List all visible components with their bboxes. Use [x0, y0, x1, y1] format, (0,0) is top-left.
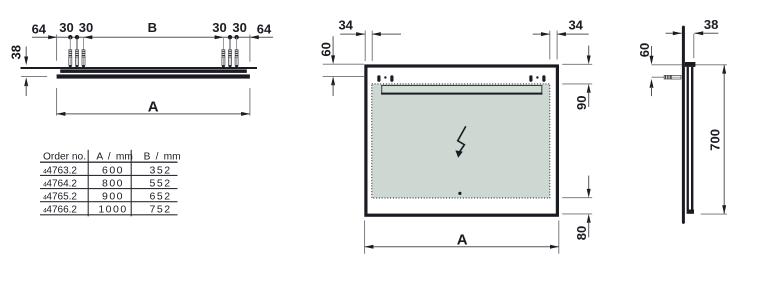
- svg-text:60: 60: [637, 43, 652, 57]
- svg-text:Order no.: Order no.: [43, 151, 86, 162]
- svg-text:80: 80: [574, 226, 589, 240]
- svg-text:30: 30: [59, 20, 73, 35]
- svg-text:34: 34: [568, 17, 583, 32]
- svg-text:700: 700: [708, 129, 723, 151]
- svg-text:900: 900: [102, 191, 124, 203]
- svg-text:30: 30: [212, 20, 226, 35]
- svg-text:B / mm: B / mm: [144, 151, 181, 162]
- svg-text:A: A: [148, 99, 159, 116]
- svg-text:352: 352: [150, 164, 172, 176]
- svg-text:4763.2: 4763.2: [46, 165, 77, 176]
- svg-text:64: 64: [257, 21, 272, 36]
- svg-text:552: 552: [150, 178, 172, 190]
- svg-text:652: 652: [150, 191, 172, 203]
- svg-text:38: 38: [704, 17, 718, 32]
- svg-text:600: 600: [102, 164, 124, 176]
- svg-text:752: 752: [150, 204, 172, 216]
- svg-text:30: 30: [79, 20, 93, 35]
- svg-text:A / mm: A / mm: [96, 151, 133, 162]
- svg-text:4766.2: 4766.2: [46, 205, 77, 216]
- svg-text:4765.2: 4765.2: [46, 192, 77, 203]
- svg-text:1000: 1000: [98, 204, 127, 216]
- svg-text:30: 30: [232, 20, 246, 35]
- svg-text:4764.2: 4764.2: [46, 179, 77, 190]
- svg-text:800: 800: [102, 178, 124, 190]
- svg-text:60: 60: [318, 42, 333, 56]
- svg-text:B: B: [148, 20, 157, 35]
- svg-text:A: A: [457, 231, 468, 248]
- svg-text:34: 34: [338, 17, 353, 32]
- svg-text:64: 64: [32, 21, 47, 36]
- svg-text:38: 38: [8, 45, 23, 59]
- svg-text:90: 90: [574, 96, 589, 110]
